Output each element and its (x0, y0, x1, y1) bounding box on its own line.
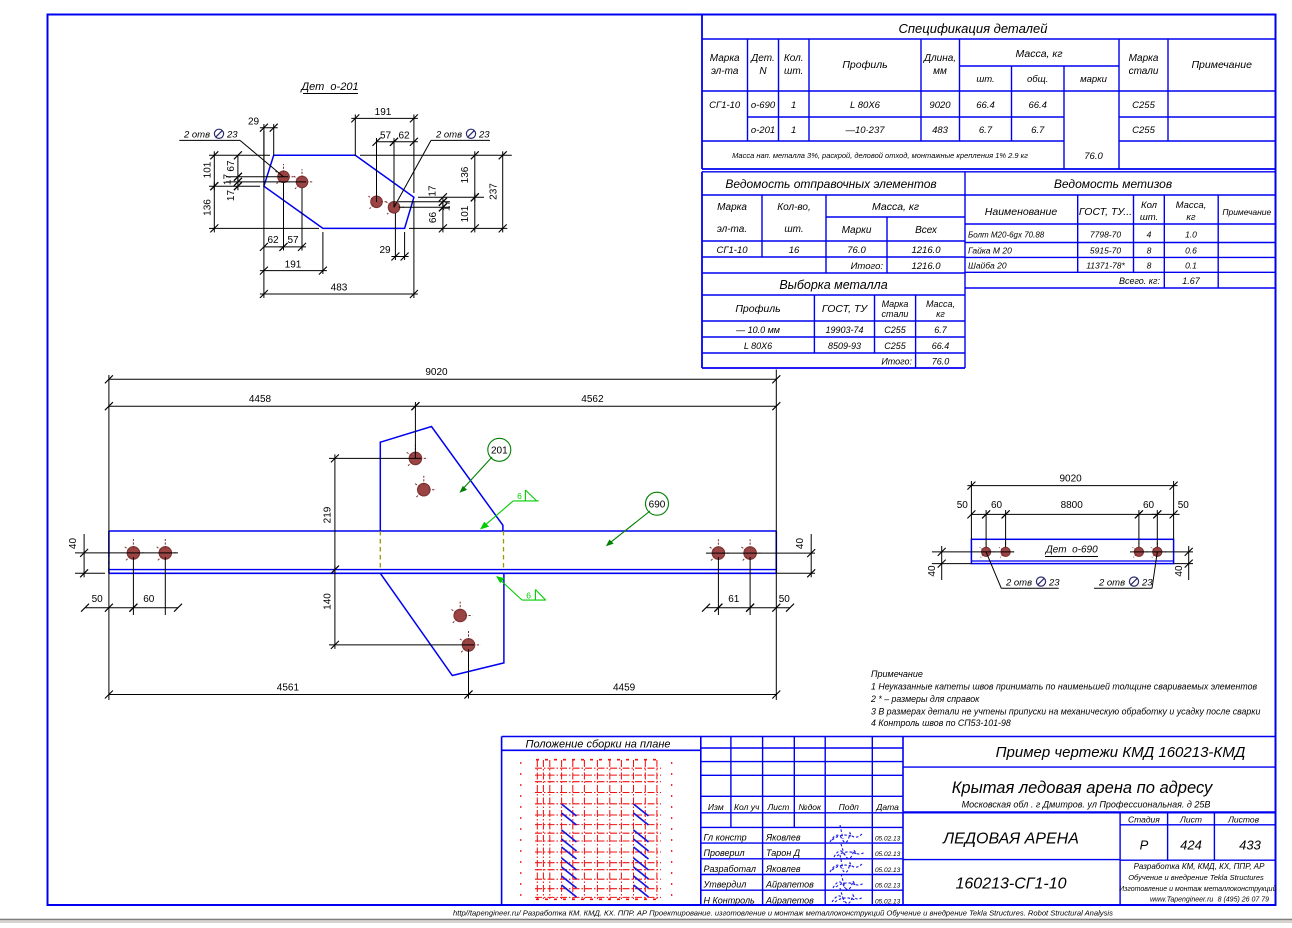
svg-text:мм: мм (933, 66, 947, 77)
svg-text:Примечание: Примечание (1222, 207, 1271, 217)
svg-text:Дет о-690: Дет о-690 (1045, 545, 1098, 556)
table: Выборка металла grid (702, 295, 965, 368)
svg-text:219: 219 (323, 506, 334, 523)
title block right cells (903, 767, 1276, 905)
svg-text:Болт М20-6gх 70.88: Болт М20-6gх 70.88 (968, 231, 1045, 240)
title block signature rows text (703, 833, 901, 906)
svg-text:483: 483 (331, 283, 348, 294)
detail о-201 plate outline (264, 155, 414, 228)
svg-text:L 80Х6: L 80Х6 (744, 341, 772, 351)
svg-text:8509-93: 8509-93 (828, 341, 861, 351)
svg-text:76.0: 76.0 (932, 357, 950, 367)
label 2 отв 23 right detail-201 (394, 129, 490, 207)
svg-text:эл-та: эл-та (711, 66, 739, 77)
svg-text:66.4: 66.4 (1028, 100, 1047, 111)
svg-text:16: 16 (789, 245, 800, 256)
svg-text:4458: 4458 (249, 394, 272, 405)
svg-text:Стадия: Стадия (1128, 815, 1160, 825)
svg-text:67: 67 (226, 160, 237, 172)
svg-text:11371-78*: 11371-78* (1086, 261, 1125, 271)
member bolt holes left (125, 539, 178, 561)
svg-text:Ведомость отправочных элементо: Ведомость отправочных элементов (725, 177, 936, 191)
dimension 50 60 bottom-left main (81, 557, 182, 615)
svg-text:50: 50 (92, 594, 104, 605)
svg-text:Айрапетов: Айрапетов (765, 880, 814, 890)
svg-text:50: 50 (1178, 500, 1190, 511)
svg-text:Тарон Д: Тарон Д (766, 848, 801, 858)
svg-text:Лист: Лист (1179, 815, 1202, 825)
dimension 4458 4562 main (105, 394, 780, 458)
svg-text:136: 136 (460, 166, 471, 183)
svg-text:57: 57 (287, 235, 299, 246)
svg-text:№док: №док (798, 802, 822, 812)
plan red grid (521, 760, 672, 900)
svg-text:7798-70: 7798-70 (1090, 230, 1121, 240)
svg-text:эл-та.: эл-та. (717, 224, 747, 235)
detail о-690 title (1045, 545, 1098, 557)
svg-text:о-201: о-201 (751, 125, 775, 136)
svg-text:8 (495) 26 07 79: 8 (495) 26 07 79 (1218, 897, 1269, 904)
svg-text:Длина,: Длина, (923, 53, 956, 64)
svg-text:201: 201 (491, 446, 508, 457)
svg-text:стали: стали (1129, 66, 1159, 77)
svg-text:Итого:: Итого: (851, 261, 884, 272)
svg-text:1.67: 1.67 (1182, 276, 1201, 286)
svg-text:0.6: 0.6 (1185, 246, 1197, 256)
svg-text:Профиль: Профиль (735, 303, 780, 315)
svg-text:Обучение и внедрение Tekla St: Обучение и внедрение Tekla Structures (1128, 873, 1264, 882)
svg-text:40: 40 (927, 565, 938, 577)
dimension 50 60 8800 60 50 detail-690 (957, 500, 1190, 547)
svg-text:101: 101 (203, 161, 214, 178)
table: Выборка металла text (735, 278, 955, 367)
svg-text:424: 424 (1180, 838, 1202, 853)
dimension 9020 main top (105, 367, 780, 700)
svg-text:Наименование: Наименование (985, 206, 1058, 218)
svg-text:2 * – размеры для справок: 2 * – размеры для справок (870, 694, 980, 704)
svg-text:Яковлев: Яковлев (765, 864, 801, 874)
svg-text:Яковлев: Яковлев (765, 833, 801, 843)
svg-text:2 отв: 2 отв (1098, 578, 1125, 589)
dimension 61 50 bottom-right main (702, 557, 794, 615)
svg-text:С255: С255 (1132, 125, 1155, 136)
svg-text:9020: 9020 (929, 100, 951, 111)
svg-text:136: 136 (203, 199, 214, 216)
member hidden leg edge left end (108, 557, 110, 570)
dimension 101 136 left (203, 151, 320, 232)
svg-text:6.7: 6.7 (934, 325, 948, 335)
svg-text:Изготовление и монтаж металлок: Изготовление и монтаж металлоконструкций (1119, 885, 1276, 893)
svg-text:стали: стали (882, 309, 909, 319)
svg-text:ГОСТ, ТУ: ГОСТ, ТУ (822, 303, 868, 315)
svg-text:140: 140 (323, 593, 334, 610)
weld symbol 6 lower (496, 576, 546, 600)
svg-text:шт.: шт. (976, 74, 994, 85)
svg-text:Кол уч: Кол уч (734, 802, 760, 812)
svg-text:Масса, кг: Масса, кг (1015, 48, 1062, 60)
table: Ведомость метизов grid (965, 195, 1276, 288)
dimension 483 bottom detail-201 (260, 131, 418, 298)
svg-text:40: 40 (1174, 565, 1185, 577)
svg-text:СГ1-10: СГ1-10 (709, 100, 741, 111)
svg-text:6: 6 (526, 590, 531, 600)
svg-text:1: 1 (791, 125, 796, 136)
title block grid left (701, 737, 1276, 906)
svg-text:05.02.13: 05.02.13 (875, 867, 901, 874)
svg-text:29: 29 (379, 245, 391, 256)
svg-text:50: 50 (957, 500, 969, 511)
footer url line (453, 909, 1113, 918)
svg-text:о-690: о-690 (751, 100, 776, 111)
svg-text:Утвердил: Утвердил (703, 880, 747, 890)
table: Спецификация деталей text (709, 21, 1252, 162)
svg-text:1216.0: 1216.0 (911, 261, 941, 272)
svg-text:С255: С255 (884, 341, 907, 351)
gusset plate upper outline (380, 427, 503, 532)
svg-text:Дет.: Дет. (750, 53, 775, 64)
svg-text:05.02.13: 05.02.13 (875, 836, 901, 843)
label 2 отв 23 left detail-201 (179, 129, 283, 177)
svg-text:Марка: Марка (710, 53, 740, 64)
svg-text:19903-74: 19903-74 (825, 325, 863, 335)
svg-text:05.02.13: 05.02.13 (875, 883, 901, 890)
svg-text:N: N (759, 66, 767, 77)
detail о-690 bolt holes (980, 542, 1166, 558)
svg-text:9020: 9020 (1059, 473, 1082, 484)
svg-text:76.0: 76.0 (1084, 151, 1103, 162)
svg-text:Марки: Марки (842, 225, 872, 236)
svg-text:483: 483 (932, 125, 949, 136)
svg-text:Примечание: Примечание (1191, 59, 1252, 71)
svg-text:1216.0: 1216.0 (911, 245, 941, 256)
dimension 40 right main (706, 534, 815, 577)
svg-text:шт.: шт. (784, 66, 803, 77)
svg-text:Айрапетов: Айрапетов (765, 895, 814, 905)
svg-text:Гл констр: Гл констр (704, 833, 747, 843)
svg-text:Разработка КМ, КМД, КХ, ППР, А: Разработка КМ, КМД, КХ, ППР, АР (1134, 862, 1266, 871)
dimension 29 top-left (248, 117, 278, 187)
svg-text:2 отв: 2 отв (435, 130, 462, 141)
svg-text:433: 433 (1239, 838, 1261, 853)
svg-text:17: 17 (223, 174, 234, 186)
signature scribbles (830, 825, 865, 904)
dimension 191 top-right (351, 107, 418, 193)
svg-text:4561: 4561 (277, 683, 300, 694)
svg-text:общ.: общ. (1027, 74, 1048, 85)
svg-text:—10·237: —10·237 (844, 125, 885, 136)
svg-text:Лист: Лист (766, 802, 789, 812)
table: Ведомость метизов text (968, 177, 1272, 286)
svg-text:Марка: Марка (1129, 53, 1159, 64)
svg-text:http//tapengineer.ru/ Разрабо: http//tapengineer.ru/ Разработка КМ. КМД… (453, 909, 1113, 918)
svg-text:5915-70: 5915-70 (1090, 246, 1121, 256)
dimension 62 57 bottom-left detail-201 (260, 183, 306, 251)
svg-text:Положение сборки на плане: Положение сборки на плане (525, 739, 670, 751)
svg-text:61: 61 (728, 594, 740, 605)
svg-text:Масса нап. металла 3%, раскрой: Масса нап. металла 3%, раскрой, деловой … (732, 151, 1028, 160)
svg-text:Марка: Марка (717, 202, 747, 213)
svg-text:690: 690 (649, 499, 666, 510)
table: Ведомость отправочных элементов grid (702, 172, 1276, 368)
balloon 201 callout (460, 438, 511, 493)
svg-text:23: 23 (226, 130, 238, 141)
dimension 237 right detail-201 (488, 151, 506, 232)
svg-text:С255: С255 (884, 325, 907, 335)
svg-text:05.02.13: 05.02.13 (875, 851, 901, 858)
svg-text:L 80Х6: L 80Х6 (850, 100, 881, 111)
svg-text:8: 8 (1147, 261, 1152, 271)
label 2 отв 23 right detail-690 (1094, 552, 1157, 589)
svg-text:марки: марки (1080, 74, 1108, 85)
svg-text:Дата: Дата (875, 802, 899, 812)
svg-text:Листов: Листов (1227, 815, 1260, 825)
svg-text:23: 23 (1141, 578, 1153, 589)
svg-text:С255: С255 (1132, 100, 1155, 111)
dimension 9020 detail-690 (967, 473, 1177, 539)
svg-text:60: 60 (1143, 500, 1155, 511)
svg-text:Московская обл . г Дмитров. ул: Московская обл . г Дмитров. ул Профессио… (962, 800, 1211, 810)
svg-text:Пример чертежи КМД 160213-КМД: Пример чертежи КМД 160213-КМД (996, 744, 1246, 761)
svg-text:2 отв: 2 отв (1005, 578, 1032, 589)
svg-text:23: 23 (1048, 578, 1060, 589)
svg-text:1: 1 (791, 100, 796, 111)
svg-text:191: 191 (285, 259, 302, 270)
dimension 4561 4459 main bottom (105, 649, 780, 699)
svg-text:СГ1-10: СГ1-10 (716, 245, 748, 256)
svg-text:17: 17 (428, 185, 439, 197)
plan position box (502, 737, 1276, 906)
title block right text (942, 744, 1276, 904)
svg-text:4: 4 (1147, 230, 1152, 240)
svg-text:40: 40 (795, 538, 806, 550)
balloon 690 callout (606, 492, 669, 546)
svg-text:17: 17 (226, 190, 237, 202)
svg-text:Выборка металла: Выборка металла (779, 278, 887, 292)
dimension 136 101 right detail-201 (360, 151, 512, 232)
svg-text:66.4: 66.4 (932, 341, 950, 351)
svg-text:— 10.0 мм: — 10.0 мм (735, 325, 780, 335)
table: Ведомость отправочных элементов text (716, 177, 941, 272)
svg-text:ЛЕДОВАЯ АРЕНА: ЛЕДОВАЯ АРЕНА (942, 831, 1079, 848)
dimension 40 left detail-690 (927, 546, 1014, 580)
dimension 191 bottom detail-201 (260, 232, 327, 275)
svg-text:50: 50 (779, 594, 791, 605)
member angle L80x6 outline (109, 531, 776, 573)
svg-text:кг: кг (936, 309, 945, 319)
dimension 29 bottom-right detail-201 (379, 213, 408, 261)
svg-text:4562: 4562 (581, 394, 604, 405)
svg-text:29: 29 (248, 117, 260, 128)
svg-text:8: 8 (1147, 246, 1152, 256)
svg-text:Р: Р (1140, 838, 1149, 853)
dimension 57 62 top-right (373, 131, 418, 208)
svg-text:66: 66 (428, 212, 439, 224)
bottom window bar (0, 919, 1292, 923)
svg-text:9020: 9020 (425, 367, 448, 378)
svg-text:Кол: Кол (1141, 200, 1158, 211)
svg-text:237: 237 (488, 183, 499, 200)
svg-text:Примечание: Примечание (871, 669, 923, 679)
svg-text:Кол.: Кол. (784, 53, 804, 64)
svg-text:76.0: 76.0 (847, 245, 866, 256)
svg-text:101: 101 (460, 205, 471, 222)
dimension 40 left main (68, 534, 178, 577)
svg-text:кг: кг (1186, 212, 1195, 223)
svg-text:6: 6 (517, 491, 522, 501)
svg-text:6.7: 6.7 (979, 125, 993, 136)
svg-text:8800: 8800 (1061, 500, 1084, 511)
svg-text:191: 191 (375, 107, 392, 118)
dimension 219 140 vertical main (323, 454, 475, 649)
svg-text:Спецификация деталей: Спецификация деталей (899, 21, 1048, 36)
svg-text:60: 60 (143, 594, 155, 605)
svg-text:Проверил: Проверил (704, 848, 745, 858)
svg-text:4 Контроль швов по СП53-101-9: 4 Контроль швов по СП53-101-98 (871, 718, 1011, 728)
svg-text:Всего. кг:: Всего. кг: (1119, 276, 1161, 286)
notes Примечание (870, 669, 1260, 728)
svg-text:40: 40 (68, 538, 79, 550)
svg-text:62: 62 (267, 235, 279, 246)
svg-text:Кол-во,: Кол-во, (777, 202, 811, 213)
svg-text:Разработал: Разработал (704, 864, 756, 874)
table: Спецификация деталей grid (702, 15, 1276, 169)
svg-text:Изм: Изм (708, 802, 724, 812)
svg-text:Дет о-201: Дет о-201 (299, 81, 358, 93)
svg-text:Подп: Подп (839, 802, 860, 812)
svg-text:Масса, кг: Масса, кг (872, 201, 919, 213)
svg-text:23: 23 (478, 130, 490, 141)
svg-text:1.0: 1.0 (1185, 230, 1197, 240)
svg-text:0.1: 0.1 (1185, 261, 1197, 271)
svg-text:Н Контроль: Н Контроль (704, 895, 756, 905)
detail о-201 title (299, 81, 358, 94)
svg-text:Гайка М 20: Гайка М 20 (968, 246, 1012, 256)
label 2 отв 23 left detail-690 (986, 552, 1060, 589)
dimension 67 17 17 left (223, 151, 307, 201)
member bolt holes right (710, 539, 763, 561)
detail о-201 bolt holes (275, 164, 405, 214)
dimension 40 right detail-690 (1130, 546, 1193, 580)
svg-text:шт.: шт. (784, 224, 803, 235)
gusset plate lower outline (380, 573, 504, 675)
svg-text:Шайба 20: Шайба 20 (968, 261, 1007, 271)
detail о-690 plate outline (971, 539, 1173, 563)
svg-text:66.4: 66.4 (976, 100, 995, 111)
svg-text:Профиль: Профиль (842, 59, 887, 71)
dimension 17 17 66 right detail-201 (398, 185, 453, 232)
svg-text:1 Неуказанные катеты швов при: 1 Неуказанные катеты швов принимать по н… (871, 682, 1257, 692)
svg-text:ГОСТ, ТУ...: ГОСТ, ТУ... (1079, 206, 1132, 218)
svg-text:Марка: Марка (882, 299, 909, 309)
title block header row text (708, 802, 899, 812)
gusset bolt holes (407, 445, 481, 653)
svg-text:60: 60 (991, 500, 1003, 511)
svg-text:Всех: Всех (915, 225, 938, 236)
svg-text:4459: 4459 (613, 683, 636, 694)
weld symbol 6 upper (480, 490, 539, 530)
svg-text:Итого:: Итого: (881, 357, 912, 367)
svg-text:57: 57 (380, 131, 392, 142)
svg-text:www.Tapengineer.ru: www.Tapengineer.ru (1150, 897, 1213, 904)
svg-text:6.7: 6.7 (1031, 125, 1045, 136)
svg-text:05.02.13: 05.02.13 (875, 898, 901, 905)
svg-text:160213-СГ1-10: 160213-СГ1-10 (956, 876, 1067, 893)
svg-text:Масса,: Масса, (1176, 200, 1207, 211)
plan blue assembly marks (562, 804, 649, 897)
svg-text:Ведомость метизов: Ведомость метизов (1054, 177, 1172, 191)
svg-text:Крытая ледовая арена по адресу: Крытая ледовая арена по адресу (952, 779, 1214, 797)
svg-text:3 В размерах детали не учтены: 3 В размерах детали не учтены припуски н… (871, 707, 1260, 717)
svg-text:2 отв: 2 отв (183, 130, 210, 141)
svg-text:шт.: шт. (1140, 212, 1158, 223)
gusset hidden edges dashed (380, 531, 503, 570)
svg-text:62: 62 (398, 131, 410, 142)
svg-text:Масса,: Масса, (926, 299, 955, 309)
